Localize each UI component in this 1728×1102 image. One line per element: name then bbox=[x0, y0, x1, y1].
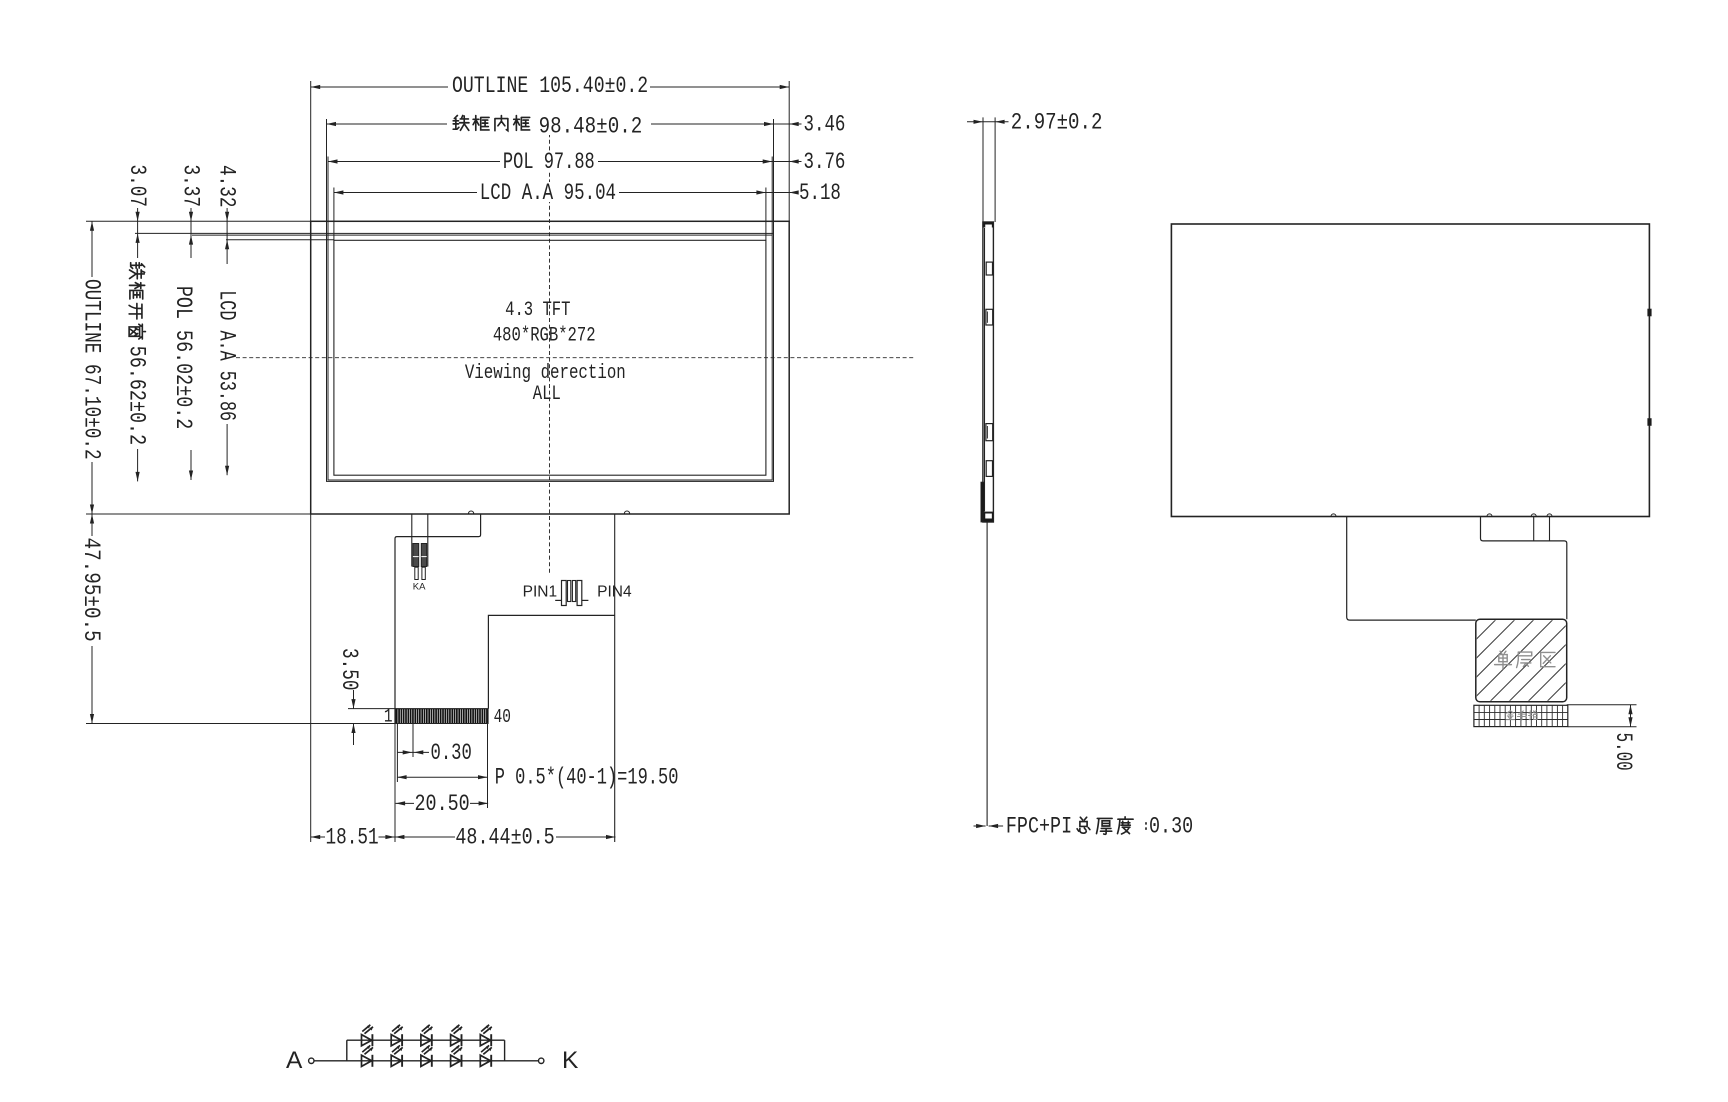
side view tab 2 bbox=[986, 309, 993, 325]
svg-text:0.30: 0.30 bbox=[431, 741, 472, 767]
svg-text:A: A bbox=[286, 1047, 303, 1074]
svg-text:KA: KA bbox=[413, 582, 426, 593]
svg-text:18.51: 18.51 bbox=[326, 826, 379, 852]
dimension LCD A.A 95.04 bbox=[334, 192, 766, 194]
svg-text:56.62±0.2: 56.62±0.2 bbox=[123, 346, 148, 445]
4-pin connector icon bbox=[562, 581, 567, 606]
svg-text:PIN1: PIN1 bbox=[523, 584, 557, 601]
side view FPC line bbox=[986, 522, 988, 826]
dimension 3.50 connector height bbox=[348, 708, 396, 710]
wire right branch riser bbox=[504, 1040, 506, 1061]
side view bottom stiffener bar bbox=[981, 482, 984, 522]
back FPC outline left bbox=[1347, 517, 1476, 621]
svg-text:OUTLINE 67.10±0.2: OUTLINE 67.10±0.2 bbox=[78, 279, 104, 460]
label 单层区 bbox=[1495, 651, 1512, 669]
note FPC+PI total thickness 0.30 bbox=[974, 825, 986, 827]
bump on back bottom edge (left) bbox=[1331, 514, 1336, 517]
single-layer hatched area (单层区) bbox=[1476, 619, 1567, 702]
extension line POL left (top) bbox=[327, 157, 329, 236]
dimension 18.51 bbox=[311, 836, 325, 838]
metal frame outline rect (front view) bbox=[311, 221, 790, 514]
LED D2 (top branch) bbox=[391, 1035, 401, 1046]
svg-text:40: 40 bbox=[494, 707, 511, 728]
wire A to K (bottom branch) bbox=[314, 1060, 539, 1062]
LED D4 (top branch) bbox=[451, 1035, 461, 1046]
side view top cap bbox=[983, 222, 994, 227]
svg-text:5.00: 5.00 bbox=[1610, 733, 1636, 771]
svg-text:1: 1 bbox=[384, 707, 393, 728]
side view body bbox=[983, 222, 994, 522]
dimension OUTLINE 105.40±0.2 bbox=[311, 86, 790, 88]
extension line connector bottom bbox=[86, 723, 396, 725]
svg-text:FPC+PI: FPC+PI bbox=[1006, 815, 1072, 840]
extension line outline left (top) bbox=[310, 81, 312, 221]
svg-text:POL 56.02±0.2: POL 56.02±0.2 bbox=[169, 286, 194, 429]
label 金手指 bbox=[1506, 711, 1515, 720]
extension line outline top-left bbox=[86, 220, 311, 222]
dimension pitch P 0.5*(40-1)=19.50 bbox=[487, 724, 489, 809]
wire left branch riser bbox=[346, 1040, 348, 1061]
wire top branch bbox=[347, 1039, 505, 1041]
svg-text:3.76: 3.76 bbox=[804, 150, 846, 176]
frame inner window rect bbox=[327, 233, 774, 481]
extension line frame window top bbox=[135, 232, 327, 234]
svg-text:20.50: 20.50 bbox=[415, 792, 470, 817]
dimension 3.46 right offset bbox=[774, 123, 802, 125]
side view tab 1 bbox=[986, 262, 992, 275]
extension line POL top bbox=[192, 234, 328, 236]
svg-text:Viewing derection: Viewing derection bbox=[465, 362, 626, 384]
dimension 2.97±0.2 thickness bbox=[982, 117, 984, 222]
KA cathode trace bbox=[427, 514, 429, 567]
KA pad K bbox=[413, 544, 419, 567]
LED D10 (bottom branch) bbox=[480, 1055, 490, 1066]
bump on back bottom edge (KA2) bbox=[1547, 514, 1552, 517]
svg-text:0.30: 0.30 bbox=[1149, 815, 1193, 840]
extension line outline right (top) bbox=[788, 81, 790, 221]
extension outline left for 18.51 bbox=[310, 514, 312, 842]
terminal A circle bbox=[309, 1058, 314, 1063]
side view tab 4 bbox=[986, 461, 992, 477]
dimension 0.30 pin width bbox=[412, 724, 414, 758]
vertical centerline of front view bbox=[549, 120, 551, 575]
FPC outline left step bbox=[395, 514, 481, 724]
svg-text:P 0.5*(40-1)=19.50: P 0.5*(40-1)=19.50 bbox=[495, 766, 679, 792]
LED D3 (top branch) bbox=[421, 1035, 431, 1046]
dimension 5.18 right offset bbox=[766, 192, 797, 194]
svg-text:48.44±0.5: 48.44±0.5 bbox=[455, 826, 554, 851]
FPC right edge + extension for 48.44 bbox=[614, 514, 616, 842]
svg-text:4.32: 4.32 bbox=[213, 165, 239, 207]
extension pin1 edge bbox=[396, 724, 398, 783]
svg-text:480*RGB*272: 480*RGB*272 bbox=[493, 325, 596, 348]
bump on back bottom edge (mid) bbox=[1487, 514, 1492, 517]
svg-text:ALL: ALL bbox=[533, 383, 561, 406]
KA anode trace bbox=[411, 514, 413, 567]
dimension 20.50 connector width bbox=[396, 802, 414, 804]
KA pad A leg bbox=[422, 567, 425, 579]
LED D6 (bottom branch) bbox=[362, 1055, 372, 1066]
POL rect bbox=[328, 235, 772, 480]
svg-text:LCD A.A 53.86: LCD A.A 53.86 bbox=[212, 290, 238, 421]
dimension 47.95±0.5 (left lower) bbox=[91, 514, 93, 536]
KA pad A bbox=[421, 544, 426, 567]
extension line outline bottom-left bbox=[86, 513, 311, 515]
dimension 48.44±0.5 bbox=[395, 836, 455, 838]
svg-text:98.48±0.2: 98.48±0.2 bbox=[539, 114, 643, 140]
svg-text:5.18: 5.18 bbox=[799, 181, 841, 207]
side view inner left edge line bbox=[984, 228, 986, 511]
extension line LCD AA right (top) bbox=[765, 188, 767, 241]
LED D8 (bottom branch) bbox=[421, 1055, 431, 1066]
svg-text:POL 97.88: POL 97.88 bbox=[503, 150, 595, 176]
back KA trace 1 bbox=[1533, 517, 1535, 541]
dimension POL 97.88 bbox=[328, 161, 772, 163]
svg-text:PIN4: PIN4 bbox=[597, 584, 632, 601]
back view outline rect bbox=[1171, 224, 1649, 517]
extension FPC left edge for 48.44 bbox=[394, 724, 396, 843]
extension line LCD AA top bbox=[226, 239, 334, 241]
back KA trace 2 bbox=[1549, 517, 1551, 541]
LED D7 (bottom branch) bbox=[391, 1055, 401, 1066]
side view tab 3 bbox=[986, 424, 993, 441]
LED D1 (top branch) bbox=[362, 1035, 372, 1046]
bump on back bottom edge (KA1) bbox=[1531, 514, 1536, 517]
dimension 3.37 top offset + POL 56.02±0.2 bbox=[190, 208, 192, 258]
dimension 5.00 gold finger height bbox=[1567, 704, 1637, 706]
40-pin FPC connector (black bar) bbox=[396, 709, 489, 724]
locating bump on outline bottom edge (left) bbox=[469, 511, 474, 514]
side view bottom cap bbox=[983, 512, 994, 522]
gold finger area (金手指) bbox=[1474, 705, 1568, 726]
svg-text:3.50: 3.50 bbox=[335, 648, 361, 690]
locating bump on outline bottom edge (right) bbox=[624, 511, 629, 514]
extension line frame inner left (top) bbox=[326, 119, 328, 233]
svg-text:4.3 TFT: 4.3 TFT bbox=[505, 299, 570, 322]
svg-text:K: K bbox=[562, 1047, 579, 1074]
FPC outline right step bbox=[488, 615, 614, 708]
dimension 3.07 top offset + 铁框开窗 56.62±0.2 bbox=[137, 208, 139, 258]
extension line LCD AA left (top) bbox=[333, 188, 335, 241]
horizontal centerline of front view bbox=[236, 357, 914, 359]
dimension frame-inner 98.48±0.2 bbox=[327, 123, 774, 125]
back FPC outline right step bbox=[1481, 517, 1567, 620]
LED D9 (bottom branch) bbox=[451, 1055, 461, 1066]
svg-text:OUTLINE 105.40±0.2: OUTLINE 105.40±0.2 bbox=[452, 74, 648, 100]
svg-text:2.97±0.2: 2.97±0.2 bbox=[1011, 110, 1103, 136]
KA pad K leg bbox=[415, 567, 418, 579]
svg-text:47.95±0.5: 47.95±0.5 bbox=[77, 538, 103, 642]
svg-text:3.07: 3.07 bbox=[123, 165, 149, 207]
svg-text:3.46: 3.46 bbox=[804, 112, 846, 138]
svg-text:3.37: 3.37 bbox=[177, 165, 203, 207]
dimension 4.32 top offset + LCD A.A 53.86 bbox=[226, 208, 228, 264]
LCD active area rect bbox=[334, 240, 766, 475]
back view right edge tab mark 2 bbox=[1648, 419, 1651, 426]
back view right edge tab mark 1 bbox=[1648, 309, 1651, 316]
extension line POL right (top) bbox=[771, 157, 773, 236]
terminal K circle bbox=[539, 1058, 544, 1063]
LED D5 (top branch) bbox=[480, 1035, 490, 1046]
dimension 3.76 right offset bbox=[772, 161, 801, 163]
dimension OUTLINE 67.10±0.2 (left) bbox=[91, 221, 93, 277]
svg-text:LCD A.A 95.04: LCD A.A 95.04 bbox=[480, 181, 616, 207]
extension line frame inner right (top) bbox=[773, 119, 775, 233]
